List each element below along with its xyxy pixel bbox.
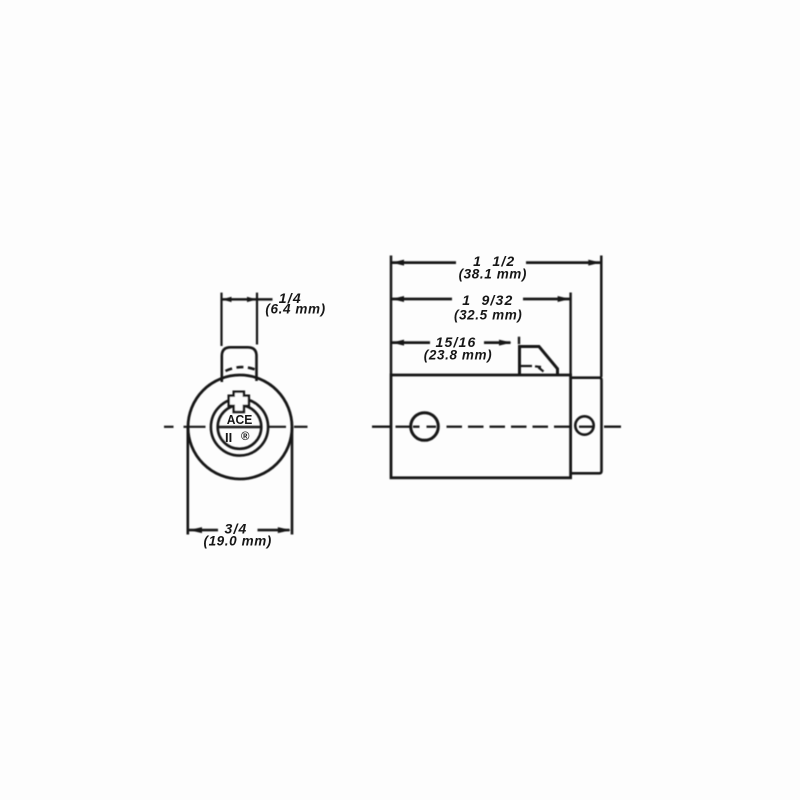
svg-text:®: ® <box>241 431 250 443</box>
svg-text:(19.0 mm): (19.0 mm) <box>203 534 271 549</box>
svg-text:(23.8 mm): (23.8 mm) <box>424 348 492 363</box>
svg-text:(32.5 mm): (32.5 mm) <box>454 308 522 323</box>
svg-text:(38.1 mm): (38.1 mm) <box>459 267 527 282</box>
svg-text:(6.4 mm): (6.4 mm) <box>265 302 325 317</box>
svg-text:II: II <box>225 430 232 445</box>
svg-text:1 9/32: 1 9/32 <box>462 292 513 308</box>
svg-text:ACE: ACE <box>227 412 253 427</box>
